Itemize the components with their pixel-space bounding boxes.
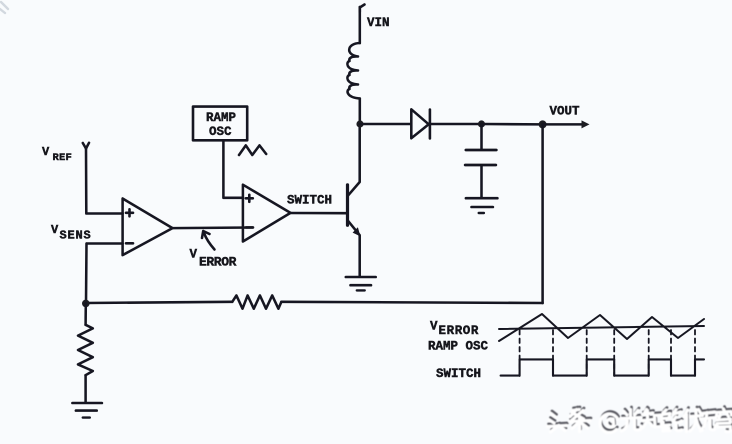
wire diode to cap node <box>430 123 482 126</box>
wire VSENS to op-amp - input <box>87 242 123 245</box>
wire feedback from VOUT node down <box>541 124 544 303</box>
resistor R1 (feedback) <box>232 295 281 308</box>
svg-text:SWITCH: SWITCH <box>287 194 332 208</box>
svg-text:V: V <box>190 248 198 262</box>
label VREF <box>42 145 72 164</box>
wire feedback horizontal left segment <box>86 302 232 303</box>
waveform SWITCH square wave <box>501 359 704 375</box>
node junction at capacitor <box>478 120 485 127</box>
label waveform VERROR <box>430 320 479 339</box>
svg-text:ERROR: ERROR <box>199 255 237 270</box>
wire VOUT output with arrow <box>543 120 590 128</box>
svg-text:V: V <box>51 223 59 237</box>
diode D1 <box>411 109 430 138</box>
wire resistor R2 to ground <box>84 375 87 402</box>
ground for transistor <box>346 277 376 290</box>
node junction at VOUT/feedback <box>539 120 547 128</box>
V_ERROR pointer arrow <box>202 231 215 250</box>
wire RAMP OSC to comparator + input <box>223 140 243 198</box>
ramp waveform icon <box>239 145 266 155</box>
svg-text:SWITCH: SWITCH <box>436 367 481 381</box>
svg-text:VOUT: VOUT <box>550 105 581 119</box>
label VERROR <box>190 248 237 270</box>
wire node to diode <box>360 123 411 126</box>
svg-text:ERROR: ERROR <box>439 324 480 338</box>
svg-text:RAMP OSC: RAMP OSC <box>428 340 489 354</box>
waveform dashed crossing lines <box>520 330 695 376</box>
ground for capacitor <box>466 198 498 213</box>
node VREF terminal <box>83 143 89 149</box>
wire VSENS rail down to feedback node <box>85 244 88 304</box>
wire feedback horizontal right segment <box>281 302 542 303</box>
svg-text:VIN: VIN <box>367 16 390 30</box>
op-amp U1 <box>123 199 173 256</box>
capacitor C1 <box>465 124 496 198</box>
svg-text:REF: REF <box>53 152 73 164</box>
watermark 头条@光知能伏无穹 <box>548 407 732 433</box>
waveform ramp triangle wave <box>499 314 704 341</box>
corner scan smudge <box>0 2 8 13</box>
resistor R2 (divider) <box>78 325 93 375</box>
wire node to resistor R2 <box>84 303 87 324</box>
node junction feedback/divider <box>82 300 90 308</box>
node VIN terminal <box>360 5 365 13</box>
wire cap node to VOUT node <box>482 123 543 126</box>
wire VIN to inductor <box>359 7 362 43</box>
svg-text:RAMP: RAMP <box>206 111 236 125</box>
ground for divider <box>72 403 102 418</box>
wire inductor to collector node <box>359 99 362 125</box>
svg-text:SENS: SENS <box>60 229 92 243</box>
node junction at collector/diode <box>356 120 363 127</box>
label VSENS <box>51 223 92 243</box>
svg-text:OSC: OSC <box>209 125 232 139</box>
comparator U2 <box>243 185 291 242</box>
wire op-amp output (V_ERROR) to comparator - input <box>173 226 253 229</box>
wire comparator output to transistor base <box>291 212 347 215</box>
transistor Q1 <box>348 124 361 277</box>
inductor L1 <box>347 43 359 99</box>
wire VREF to op-amp + input <box>86 148 123 214</box>
waveform V_ERROR level line <box>499 326 704 329</box>
svg-text:V: V <box>430 320 438 334</box>
svg-text:V: V <box>42 145 50 159</box>
label RAMP OSC box text <box>206 111 236 139</box>
RAMP OSC box <box>193 107 247 141</box>
